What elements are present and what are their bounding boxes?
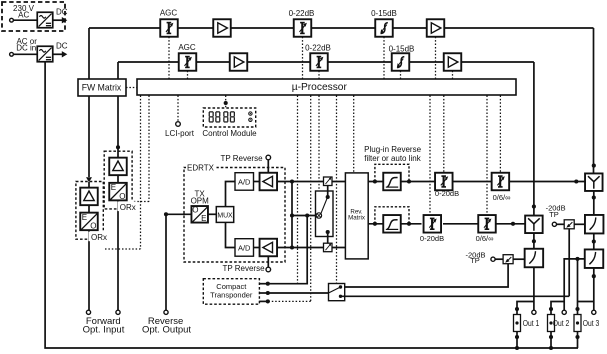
svg-text:DC: DC [56, 42, 68, 51]
svg-text:0-22dB: 0-22dB [289, 9, 315, 18]
svg-text:OPM: OPM [191, 197, 210, 206]
svg-text:A/D: A/D [238, 243, 251, 252]
svg-text:E: E [82, 213, 87, 222]
svg-text:AGC: AGC [160, 9, 178, 18]
svg-text:Plug-in Reverse: Plug-in Reverse [364, 145, 421, 154]
svg-text:ORx: ORx [91, 233, 107, 242]
svg-text:Matrix: Matrix [348, 215, 366, 222]
svg-text:O: O [192, 206, 198, 215]
svg-text:Control Module: Control Module [202, 129, 257, 138]
svg-text:O: O [119, 192, 125, 201]
svg-text:EDRTX: EDRTX [187, 163, 215, 172]
svg-text:DC in: DC in [16, 44, 36, 53]
svg-text:AGC: AGC [178, 43, 196, 52]
svg-text:0-15dB: 0-15dB [371, 9, 397, 18]
svg-text:LCI-port: LCI-port [165, 129, 195, 138]
svg-text:Opt. Output: Opt. Output [142, 325, 191, 336]
svg-text:ORx: ORx [120, 203, 136, 212]
svg-text:TP Reverse: TP Reverse [220, 154, 263, 163]
svg-text:0/6/∞: 0/6/∞ [493, 193, 511, 202]
svg-text:Transponder: Transponder [210, 291, 253, 300]
svg-text:TP: TP [470, 256, 480, 265]
svg-text:FW Matrix: FW Matrix [82, 83, 122, 94]
svg-text:MUX: MUX [217, 212, 233, 219]
svg-text:O: O [90, 222, 96, 231]
svg-text:0-22dB: 0-22dB [305, 43, 331, 52]
svg-text:TP: TP [549, 210, 559, 219]
svg-text:0/6/∞: 0/6/∞ [476, 234, 494, 243]
svg-text:0-15dB: 0-15dB [389, 45, 415, 54]
svg-text:0-20dB: 0-20dB [420, 234, 444, 243]
svg-text:DC: DC [56, 8, 68, 17]
svg-text:AC: AC [18, 10, 29, 19]
svg-text:filter or auto link: filter or auto link [364, 154, 421, 163]
svg-text:Out 2: Out 2 [553, 319, 570, 328]
svg-text:Opt. Input: Opt. Input [83, 325, 125, 336]
svg-text:E: E [111, 183, 116, 192]
svg-text:Out 1: Out 1 [523, 319, 540, 328]
svg-text:TP Reverse: TP Reverse [222, 264, 265, 273]
svg-text:0-20dB: 0-20dB [435, 189, 459, 198]
svg-text:E: E [201, 214, 206, 223]
svg-text:Out 3: Out 3 [583, 319, 600, 328]
svg-text:µ-Processor: µ-Processor [292, 82, 348, 93]
svg-text:A/D: A/D [238, 177, 251, 186]
